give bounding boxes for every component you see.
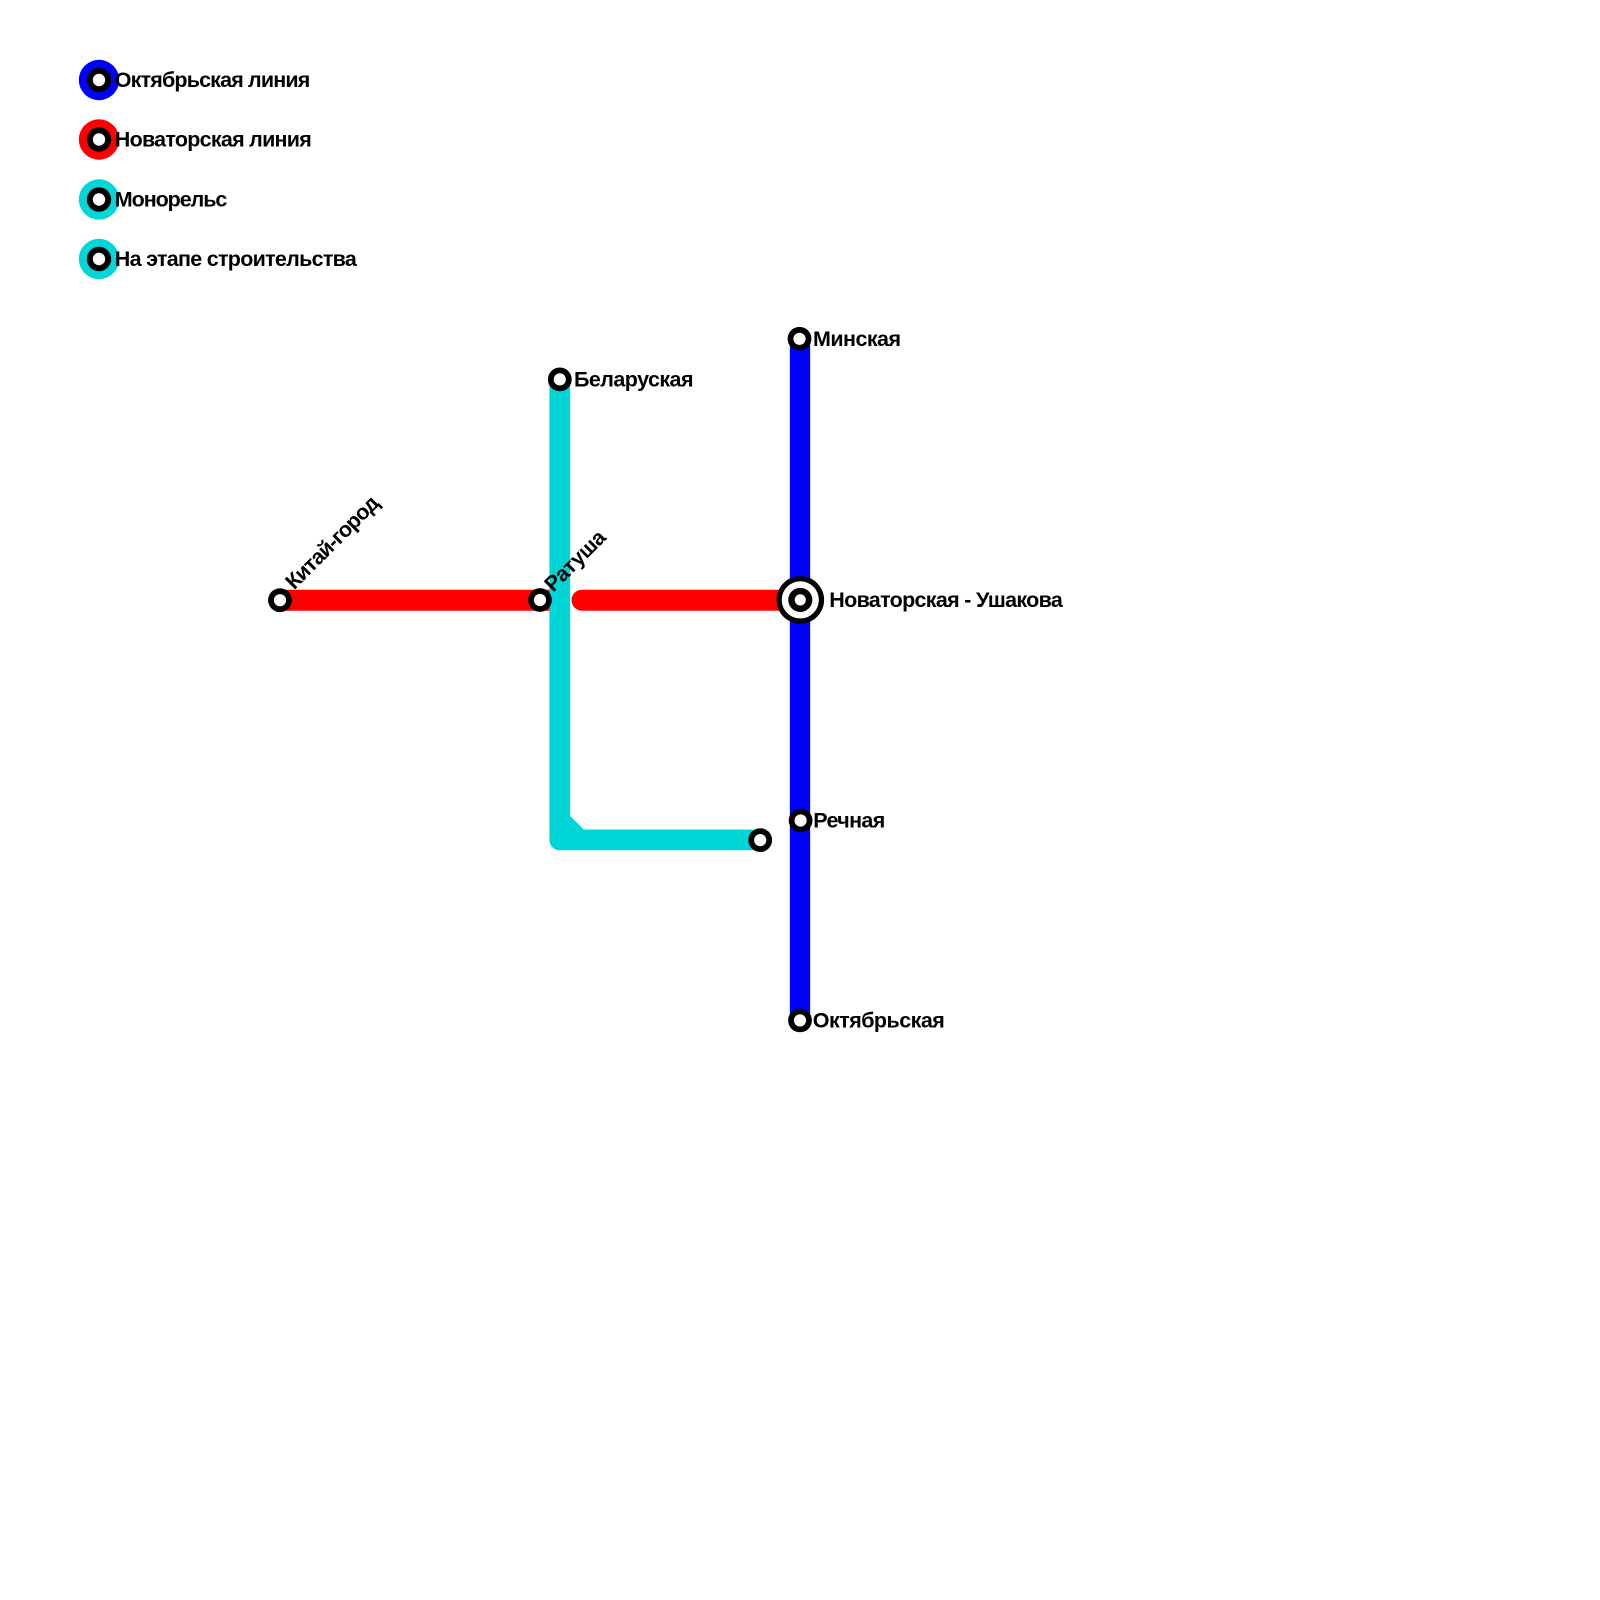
station under construction (unnamed, end of monorail) — [748, 828, 772, 852]
wire: blue Октябрьская line (Минская to Октябрьская) — [790, 339, 810, 1021]
svg-text:Монорельс: Монорельс — [115, 188, 228, 212]
svg-text:Октябрьская линия: Октябрьская линия — [115, 68, 310, 92]
svg-text:Октябрьская: Октябрьская — [813, 1008, 945, 1032]
station Китай-город — [268, 588, 292, 612]
wire: inner chamfer fill of cyan elbow — [569, 815, 585, 831]
wire: cyan Монорельс line (Беларуская down, elbow, right to construction stub) — [560, 379, 753, 840]
wire: red Новаторская line segment Китай-город to Ратуша — [280, 590, 550, 611]
svg-text:Новаторская линия: Новаторская линия — [115, 128, 312, 152]
legend blue disc (Октябрьская линия) — [79, 60, 119, 100]
legend red disc (Новаторская линия) — [79, 119, 119, 159]
station Ратуша — [528, 588, 552, 612]
svg-text:Речная: Речная — [813, 809, 885, 833]
interchange station Новаторская - Ушакова — [777, 576, 825, 624]
wire: red Новаторская line segment Ратуша to Новаторская-Ушакова — [582, 590, 800, 611]
svg-text:На этапе строительства: На этапе строительства — [115, 247, 358, 271]
svg-text:Минская: Минская — [813, 327, 901, 351]
svg-text:Новаторская - Ушакова: Новаторская - Ушакова — [829, 588, 1064, 612]
station Минская — [788, 327, 812, 351]
station Октябрьская — [788, 1009, 812, 1033]
legend cyan disc (На этапе строительства) — [79, 239, 119, 279]
svg-text:Беларуская: Беларуская — [574, 367, 694, 391]
station Речная — [789, 809, 813, 833]
legend cyan disc (Монорельс) — [79, 179, 119, 219]
station Беларуская — [548, 368, 572, 392]
